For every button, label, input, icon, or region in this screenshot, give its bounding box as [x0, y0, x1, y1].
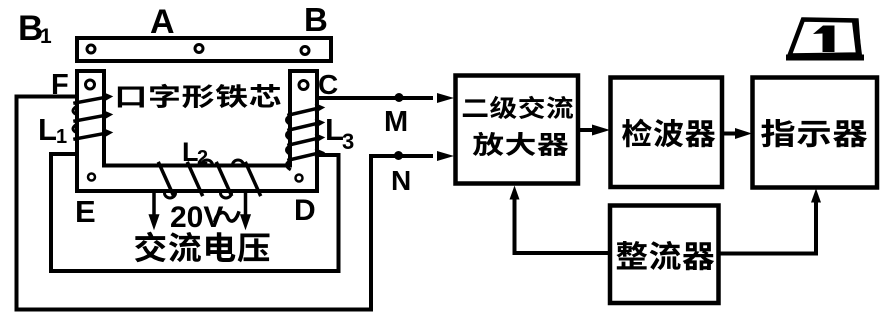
20V supply arrow right terminal — [241, 193, 250, 228]
rectifier text — [616, 241, 714, 270]
svg-text:C: C — [318, 69, 338, 100]
iron core U-shaped body (legs F-E, C-D and bottom bar) — [77, 71, 317, 191]
svg-text:F: F — [51, 69, 69, 101]
wire rectifier to indicator — [719, 189, 822, 254]
svg-text:1: 1 — [40, 25, 52, 48]
wire: inner loop connecting L1 bottom to L3 bottom — [51, 154, 339, 271]
svg-text:E: E — [75, 194, 96, 229]
figure number plate 1 — [789, 20, 861, 58]
svg-text:B: B — [304, 1, 328, 38]
coil L3 on right leg — [287, 105, 324, 170]
svg-text:2: 2 — [197, 147, 208, 169]
coil L1 on left leg — [73, 94, 111, 140]
block: indicator — [753, 78, 878, 188]
arrow detector to indicator — [722, 128, 752, 139]
node M junction dot — [395, 93, 404, 102]
wire: outer loop from F to N line — [17, 97, 432, 310]
iron core top yoke bar A-B — [77, 38, 331, 61]
block: two-stage AC amplifier U1 — [456, 76, 579, 184]
wire: M line from C to amplifier — [318, 96, 432, 100]
amplifier text line 1 — [463, 96, 573, 119]
svg-text:3: 3 — [342, 129, 354, 154]
svg-text:N: N — [391, 165, 411, 196]
node N junction dot — [394, 151, 403, 160]
block: detector — [611, 78, 723, 188]
svg-text:D: D — [294, 194, 316, 227]
detector text — [622, 119, 715, 148]
20V supply arrow left terminal — [150, 193, 159, 228]
wire rectifier to amplifier — [510, 186, 611, 254]
coil L2 on bottom bar — [159, 160, 260, 198]
AC tilde symbol — [215, 212, 239, 221]
label: AC voltage text — [135, 232, 270, 263]
block: rectifier — [610, 206, 719, 304]
svg-text:A: A — [150, 3, 175, 41]
svg-text:L: L — [38, 112, 57, 147]
amplifier text line 2 — [473, 132, 568, 156]
arrowhead into amplifier on M line — [437, 93, 454, 103]
arrowhead into amplifier on N line — [437, 151, 454, 161]
svg-text:M: M — [384, 106, 408, 138]
indicator text — [761, 119, 867, 147]
svg-text:1: 1 — [56, 126, 67, 148]
arrow amplifier to detector — [578, 125, 610, 136]
label: square-shaped iron core text — [118, 84, 281, 108]
